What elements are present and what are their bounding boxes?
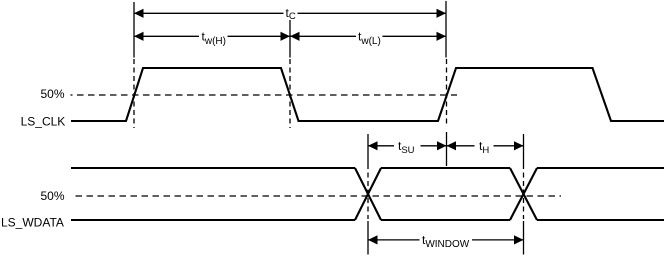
wire tw(L) dimension arrow line (290, 35, 446, 37)
node data crossing X2 (510, 168, 537, 220)
wire LS_WDATA low rail segment 2 (381, 219, 510, 221)
wire LS_WDATA low rail segment 1 (71, 219, 355, 221)
node vertical cursor at first rising edge x=134 dashed (133, 59, 135, 128)
node vertical cursor at second rising edge x=446 solid top (445, 1, 447, 58)
node vertical cursor at first rising edge x=134 solid top (133, 2, 135, 58)
node data valid start cursor x=368 solid (367, 134, 369, 164)
node data crossing X1 (355, 168, 381, 220)
svg-text:50%: 50% (40, 87, 64, 101)
node tSU right arrowhead (437, 141, 447, 150)
node data valid end cursor x=523.5 dashed (523, 164, 525, 219)
node tSU/tH divider solid line x=446.5 (446, 132, 448, 166)
node tWINDOW right arrowhead (514, 235, 524, 244)
svg-text:LS_CLK: LS_CLK (21, 115, 66, 129)
svg-text:LS_WDATA: LS_WDATA (1, 216, 64, 230)
node tH right arrowhead (514, 141, 524, 150)
node data valid end cursor x=523.5 solid (523, 134, 525, 164)
node tw(L) right arrowhead (437, 32, 447, 41)
node tw(H) left arrowhead (134, 32, 144, 41)
wire tWINDOW dimension arrow line (368, 239, 524, 241)
wire tSU dimension arrow line (368, 145, 447, 147)
node tWINDOW left arrowhead (368, 235, 378, 244)
node tSU left arrowhead (368, 141, 378, 150)
node tC right arrowhead (437, 9, 447, 18)
node tH left arrowhead (447, 141, 457, 150)
wire LS_WDATA high rail segment 2 (381, 167, 510, 169)
node tw(H) right arrowhead (281, 32, 291, 41)
wire LS_WDATA low rail segment 3 (537, 219, 664, 221)
node data valid start cursor x=368 dashed (367, 164, 369, 219)
node data valid start cursor x=368 solid bottom (367, 221, 369, 255)
node tw(L) left arrowhead (290, 32, 300, 41)
wire 50% dashed reference line for LS_CLK (71, 94, 458, 96)
wire 50% dashed reference line for LS_WDATA (76, 195, 562, 197)
wire tw(H) dimension arrow line (134, 35, 290, 37)
wire LS_WDATA high rail segment 3 (537, 167, 664, 169)
svg-text:50%: 50% (40, 189, 64, 203)
node vertical cursor at falling edge x=290 solid top (289, 20, 291, 58)
wire tH dimension arrow line (447, 145, 524, 147)
node data valid end cursor x=523.5 solid bottom (523, 221, 525, 255)
wire LS_CLK waveform (71, 68, 664, 121)
node vertical cursor at second rising edge x=446 dashed (446, 59, 448, 127)
wire tC dimension arrow line (134, 12, 446, 14)
node tC left arrowhead (134, 9, 144, 18)
wire LS_WDATA high rail segment 1 (71, 167, 355, 169)
node vertical cursor at falling edge x=290 dashed (289, 59, 291, 128)
